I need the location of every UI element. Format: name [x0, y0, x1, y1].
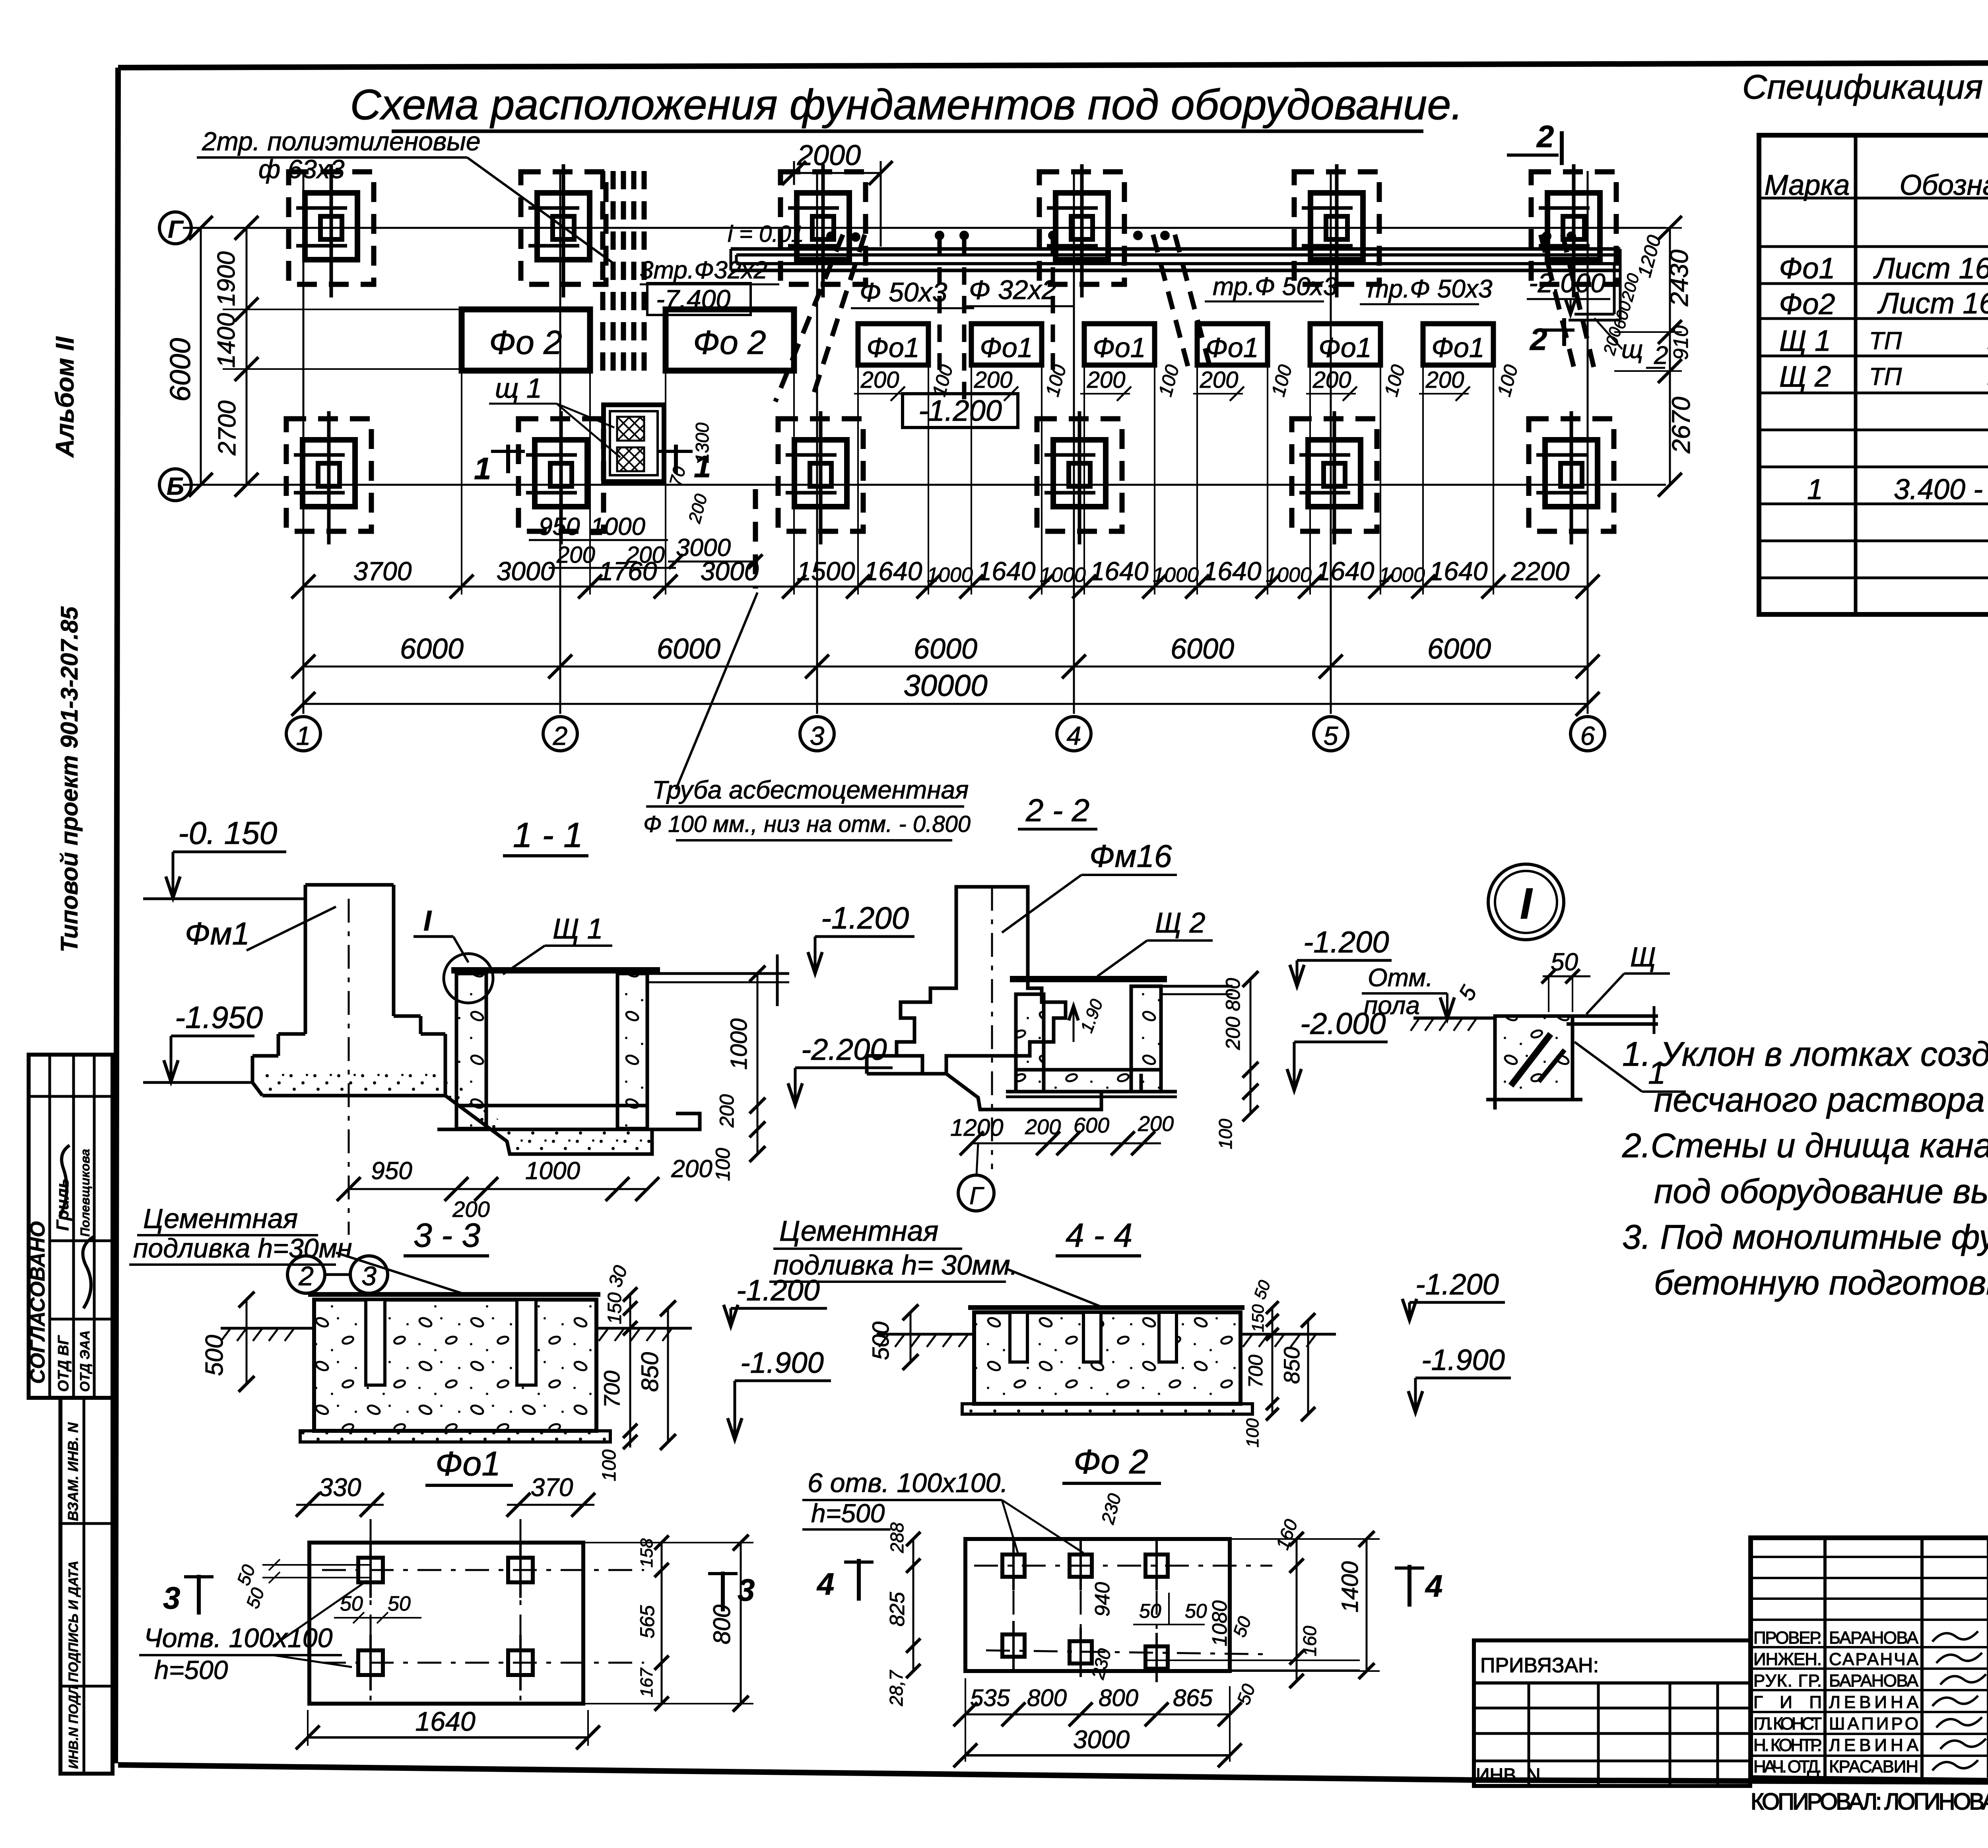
svg-text:3000: 3000 — [701, 556, 759, 586]
column Фм1 — [305, 883, 394, 887]
svg-text:бетонную подготовку из бетона: бетонную подготовку из бетона М 50. — [1654, 1264, 1988, 1302]
svg-text:ОТД ВГ: ОТД ВГ — [55, 1335, 72, 1392]
elevation -1.200 box — [903, 394, 1018, 428]
anchors plan Фо1 — [358, 1558, 383, 1582]
svg-text:6: 6 — [1580, 721, 1595, 750]
svg-text:865: 865 — [1173, 1685, 1213, 1711]
extra pipe dots — [827, 233, 835, 240]
inv strip table — [60, 1398, 113, 1774]
foundation square top row col 3 — [780, 172, 866, 284]
Фо1 box 5 — [1310, 324, 1380, 365]
svg-text:Фм1: Фм1 — [185, 916, 250, 951]
svg-text:Щ 1: Щ 1 — [553, 913, 603, 945]
svg-text:Щ: Щ — [1630, 941, 1656, 972]
svg-text:1000: 1000 — [1040, 564, 1086, 587]
svg-text:Фо1: Фо1 — [866, 332, 920, 363]
svg-text:подливка h= 30мм.: подливка h= 30мм. — [773, 1249, 1018, 1281]
dims top plan Фо1 — [296, 1504, 384, 1506]
svg-text:3700: 3700 — [353, 556, 412, 586]
column axis 3 — [816, 171, 818, 714]
svg-text:-2.000: -2.000 — [1529, 268, 1606, 298]
channel bottom slab2 — [437, 1128, 676, 1131]
svg-text:-2.200: -2.200 — [801, 1033, 887, 1067]
spec table — [1759, 135, 1988, 614]
svg-text:825: 825 — [886, 1591, 909, 1626]
svg-text:1. Уклон в лотках создать путе: 1. Уклон в лотках создать путем нанесени… — [1622, 1035, 1988, 1073]
Фо2 box 1 — [462, 309, 590, 371]
floor line left — [143, 898, 305, 900]
svg-text:Фм16: Фм16 — [1089, 838, 1172, 874]
svg-text:50: 50 — [340, 1592, 363, 1615]
svg-text:Фо1: Фо1 — [1779, 252, 1835, 285]
svg-text:1000: 1000 — [1266, 564, 1312, 587]
svg-text:200: 200 — [1425, 367, 1464, 393]
svg-text:Фо 2: Фо 2 — [693, 324, 766, 361]
svg-text:щ: щ — [1621, 335, 1643, 363]
svg-text:Схема расположения фундаментов: Схема расположения фундаментов под обору… — [350, 80, 1463, 128]
dim 500 left 3-3 — [246, 1300, 248, 1384]
bedding 2-2 — [946, 1074, 1141, 1110]
signature squiggles — [60, 1145, 70, 1217]
svg-text:600: 600 — [1074, 1113, 1109, 1137]
svg-text:1640: 1640 — [1316, 556, 1375, 586]
svg-text:РУК. ГР.: РУК. ГР. — [1753, 1671, 1822, 1691]
svg-text:200: 200 — [1138, 1112, 1174, 1136]
concrete texture under footing — [262, 1074, 652, 1154]
foundation square top row col 1 — [289, 172, 374, 284]
signature table rows — [1751, 1556, 1988, 1558]
svg-text:150: 150 — [1248, 1304, 1267, 1332]
svg-text:1760: 1760 — [599, 556, 657, 586]
svg-text:2тр. полиэтиленовые: 2тр. полиэтиленовые — [202, 126, 481, 156]
svg-text:Альбом II: Альбом II — [50, 336, 79, 458]
svg-text:Фо1: Фо1 — [1206, 332, 1259, 363]
svg-text:Щ 2: Щ 2 — [1155, 907, 1206, 939]
svg-text:200: 200 — [1312, 367, 1351, 393]
right dims 3-3 — [629, 1294, 631, 1448]
svg-text:100: 100 — [1243, 1418, 1262, 1448]
axis circle Г 2-2 — [958, 1175, 994, 1211]
svg-text:ВЗАМ. ИНВ. N: ВЗАМ. ИНВ. N — [65, 1422, 81, 1521]
svg-text:h=500: h=500 — [154, 1655, 228, 1685]
svg-text:800: 800 — [1099, 1685, 1138, 1711]
channel 2-2 — [1016, 994, 1044, 1092]
svg-text:200: 200 — [860, 367, 899, 393]
svg-text:200 800: 200 800 — [1222, 978, 1244, 1050]
extension lines to dim row A — [461, 372, 462, 595]
dim chain row B 6000 — [303, 666, 1588, 668]
svg-text:2200: 2200 — [1511, 556, 1570, 586]
detail circle mark I — [444, 954, 493, 1003]
bedding sloping to channel — [262, 1096, 700, 1154]
anchor slots 4-4 — [1010, 1312, 1027, 1362]
svg-text:288: 288 — [887, 1522, 907, 1553]
svg-text:1640: 1640 — [864, 556, 922, 586]
svg-text:565: 565 — [636, 1605, 658, 1638]
svg-text:Лист 16: Лист 16 — [1873, 252, 1988, 285]
svg-text:ТП: ТП — [1869, 327, 1902, 355]
bottom dims section 1-1 — [349, 1188, 647, 1190]
svg-text:ТП: ТП — [1869, 363, 1902, 391]
foundation square bottom row col 4 — [1037, 419, 1122, 531]
svg-text:6 отв. 100х100.: 6 отв. 100х100. — [808, 1468, 1008, 1498]
foundation square bottom row col 1 — [286, 419, 371, 531]
floor right 2-2 — [1161, 985, 1233, 988]
svg-text:-2.000: -2.000 — [1300, 1007, 1386, 1041]
svg-text:167: 167 — [637, 1667, 656, 1697]
svg-text:4: 4 — [1425, 1568, 1442, 1603]
right dims plan Фо1 — [661, 1543, 663, 1704]
floor lines right of channel — [647, 972, 789, 975]
svg-text:h=500: h=500 — [811, 1498, 885, 1528]
svg-text:3 - 3: 3 - 3 — [414, 1216, 480, 1254]
svg-text:Ф 32х2: Ф 32х2 — [969, 275, 1056, 305]
left dim 6000 vertical — [200, 228, 202, 485]
svg-text:ИНЖЕН.: ИНЖЕН. — [1753, 1650, 1822, 1669]
svg-text:200: 200 — [974, 367, 1013, 393]
svg-text:800: 800 — [709, 1605, 735, 1644]
column axis 5 — [1330, 171, 1332, 714]
svg-text:Чотв. 100х100: Чотв. 100х100 — [144, 1623, 333, 1653]
svg-text:Спецификация к схеме расположе: Спецификация к схеме расположения фундам… — [1742, 68, 1988, 106]
svg-text:-1.950: -1.950 — [175, 1000, 263, 1035]
svg-text:Марка: Марка — [1765, 169, 1850, 201]
svg-text:6000: 6000 — [914, 633, 977, 665]
svg-text:Отм.: Отм. — [1368, 963, 1433, 992]
svg-text:1640: 1640 — [1090, 556, 1149, 586]
svg-text:3.400 - 6/76: 3.400 - 6/76 — [1894, 474, 1988, 505]
svg-text:500: 500 — [201, 1335, 228, 1376]
svg-text:Щ 2: Щ 2 — [1779, 360, 1831, 393]
foundation square bottom row col 3 — [778, 419, 863, 531]
svg-text:5: 5 — [1324, 721, 1338, 750]
svg-text:950: 950 — [371, 1157, 412, 1185]
svg-text:1000: 1000 — [927, 564, 973, 587]
svg-text:2670: 2670 — [1667, 396, 1695, 454]
svg-text:535: 535 — [970, 1685, 1010, 1711]
svg-text:Труба асбестоцементная: Труба асбестоцементная — [652, 775, 969, 804]
footing steps — [278, 1032, 305, 1036]
dim row C 30000 — [303, 703, 1588, 705]
Фо1 box 3 — [1084, 324, 1155, 365]
ground hatch 4-4 — [877, 1333, 974, 1336]
svg-text:ф 63х3: ф 63х3 — [258, 154, 345, 184]
Щ plate detail I — [1567, 1014, 1658, 1018]
Фо1 box 2 — [971, 324, 1042, 365]
svg-text:-1.900: -1.900 — [1421, 1343, 1505, 1376]
svg-text:-1.200: -1.200 — [821, 900, 909, 935]
svg-text:-1.900: -1.900 — [740, 1346, 824, 1379]
foundation square top row col 2 — [521, 172, 606, 284]
svg-text:4 - 4: 4 - 4 — [1066, 1216, 1132, 1254]
svg-text:1640: 1640 — [1203, 556, 1262, 586]
svg-text:щ 1: щ 1 — [495, 373, 542, 404]
dashed diagonal pipes right — [1541, 235, 1574, 370]
svg-text:Типовой проект 901-3-207.85: Типовой проект 901-3-207.85 — [56, 606, 83, 952]
svg-text:50: 50 — [1139, 1600, 1161, 1622]
svg-text:1300: 1300 — [692, 422, 712, 463]
svg-text:1500: 1500 — [797, 556, 855, 586]
svg-text:БАРАНОВА: БАРАНОВА — [1829, 1671, 1919, 1691]
svg-text:330: 330 — [319, 1473, 361, 1502]
svg-text:песчаного раствора состава 1:2: песчаного раствора состава 1:2. — [1654, 1081, 1988, 1119]
svg-text:30000: 30000 — [903, 669, 987, 703]
svg-text:ОТД ЭАА: ОТД ЭАА — [78, 1330, 93, 1392]
Фо2 box 2 — [666, 309, 794, 371]
svg-text:700: 700 — [1244, 1354, 1267, 1388]
svg-text:-1.200: -1.200 — [918, 394, 1002, 427]
svg-text:-0. 150: -0. 150 — [178, 815, 277, 851]
bottom dims Фо2 plan — [965, 1714, 1230, 1716]
column axis 6 — [1587, 171, 1589, 714]
svg-text:700: 700 — [599, 1371, 624, 1408]
svg-text:НАЧ. ОТД.: НАЧ. ОТД. — [1753, 1757, 1822, 1776]
channel walls section 1-1 — [456, 974, 486, 1129]
inner dim 1.90 arrow — [1073, 1006, 1075, 1042]
foundation square top row col 5 — [1294, 172, 1379, 284]
svg-text:1000: 1000 — [1153, 564, 1199, 587]
bottom plate 4-4 — [962, 1404, 1252, 1414]
svg-text:БАРАНОВА: БАРАНОВА — [1829, 1628, 1919, 1648]
svg-text:ПОДПИСЬ И ДАТА: ПОДПИСЬ И ДАТА — [66, 1560, 81, 1682]
column axis 1 — [303, 171, 305, 714]
svg-text:200: 200 — [671, 1155, 712, 1183]
dashed diagonal pipes near col 3 — [775, 235, 843, 402]
svg-text:1900: 1900 — [213, 251, 240, 306]
svg-text:2: 2 — [553, 721, 568, 750]
dashed diagonal pipes near col 5 — [1153, 235, 1189, 370]
svg-text:3000: 3000 — [497, 556, 555, 586]
svg-text:Полевщикова: Полевщикова — [78, 1149, 92, 1237]
svg-text:Щ 1: Щ 1 — [1779, 324, 1831, 357]
svg-text:Цементная: Цементная — [143, 1203, 298, 1234]
svg-text:910: 910 — [1670, 325, 1693, 360]
centerline 2-2 — [991, 887, 993, 1169]
footing slab — [251, 1056, 254, 1082]
svg-text:Фо 2: Фо 2 — [1074, 1443, 1148, 1481]
svg-text:ПРИВЯЗАН:: ПРИВЯЗАН: — [1480, 1654, 1599, 1677]
concrete block detail I — [1495, 1016, 1573, 1100]
left dim chain 1900 1400 2700 — [246, 228, 248, 485]
svg-text:1400: 1400 — [1337, 1561, 1363, 1613]
svg-text:Фо1: Фо1 — [435, 1445, 501, 1483]
right rot dims Фо2 plan — [1296, 1539, 1298, 1681]
ground hatch left right 3-3 — [221, 1327, 314, 1330]
svg-text:1000: 1000 — [590, 513, 645, 540]
svg-text:подливка h=30мн: подливка h=30мн — [133, 1233, 352, 1263]
svg-text:тр.Ф 50х3: тр.Ф 50х3 — [1213, 272, 1338, 301]
svg-text:ИНВ.N ПОДЛ: ИНВ.N ПОДЛ — [66, 1685, 81, 1769]
svg-text:6000: 6000 — [657, 633, 720, 665]
svg-text:I: I — [1520, 879, 1533, 928]
svg-text:-1.200: -1.200 — [1303, 925, 1389, 959]
svg-text:1080: 1080 — [1208, 1600, 1231, 1646]
svg-text:200: 200 — [1087, 367, 1126, 393]
svg-text:Обозначение: Обозначение — [1899, 169, 1988, 201]
svg-text:Фо2: Фо2 — [1779, 288, 1835, 321]
svg-text:Н. КОНТР.: Н. КОНТР. — [1753, 1735, 1822, 1755]
svg-text:100: 100 — [712, 1148, 734, 1181]
svg-text:4: 4 — [1067, 721, 1081, 750]
right dims 4-4 — [1272, 1308, 1274, 1414]
svg-text:1000: 1000 — [525, 1157, 580, 1185]
svg-text:Ф 100 мм., низ на отм. - 0.800: Ф 100 мм., низ на отм. - 0.800 — [643, 811, 971, 837]
svg-text:160: 160 — [1299, 1626, 1320, 1656]
svg-text:1640: 1640 — [977, 556, 1036, 586]
svg-text:3: 3 — [163, 1580, 180, 1615]
anchors plan Фо2 — [1002, 1555, 1025, 1577]
svg-text:2 - 2: 2 - 2 — [1025, 793, 1089, 828]
channel end turn — [1619, 249, 1622, 320]
svg-text:под оборудование выполнить из: под оборудование выполнить из бетона М 1… — [1654, 1172, 1988, 1211]
Щ2 plate — [1010, 976, 1167, 982]
foundation square bottom row col 5 — [1292, 419, 1377, 531]
stepped column 2-2 — [897, 887, 1066, 1074]
anchor slots 3-3 — [366, 1300, 385, 1385]
foundation square top row col 4 — [1039, 172, 1124, 284]
svg-text:САРАНЧА: САРАНЧА — [1829, 1650, 1919, 1669]
foundation square bottom row col 2 — [518, 419, 604, 531]
svg-text:850: 850 — [637, 1352, 663, 1392]
svg-text:ПРОВЕР.: ПРОВЕР. — [1753, 1628, 1822, 1648]
svg-text:i = 0.01: i = 0.01 — [728, 221, 804, 247]
signature table columns — [1823, 1538, 1827, 1778]
svg-text:1: 1 — [1807, 474, 1823, 505]
axis circles 2 3 section — [287, 1256, 325, 1293]
svg-text:4: 4 — [816, 1566, 834, 1601]
svg-text:Гриль: Гриль — [53, 1178, 72, 1231]
plan Фо2 — [965, 1539, 1230, 1671]
privyazan table — [1474, 1640, 1750, 1786]
svg-text:1: 1 — [474, 451, 491, 486]
truba dashed line — [753, 489, 758, 589]
plan Фо1 — [309, 1543, 583, 1704]
svg-text:Фо1: Фо1 — [1093, 332, 1146, 363]
foundation square bottom row col 6 — [1529, 419, 1614, 531]
svg-text:850: 850 — [1279, 1347, 1304, 1384]
axis Б — [183, 484, 1666, 486]
svg-text:2: 2 — [1529, 322, 1547, 357]
svg-text:Фо1: Фо1 — [1431, 332, 1485, 363]
Фо1 box 6 — [1423, 324, 1493, 365]
svg-text:1: 1 — [296, 721, 311, 750]
svg-text:1640: 1640 — [415, 1706, 475, 1737]
svg-text:1 - 1: 1 - 1 — [513, 815, 583, 855]
axis Г — [183, 227, 1666, 229]
svg-text:500: 500 — [868, 1321, 894, 1360]
title block main frame — [1751, 1538, 1988, 1784]
svg-text:800: 800 — [1027, 1685, 1067, 1711]
svg-text:ИНВ. N: ИНВ. N — [1476, 1765, 1541, 1786]
svg-text:6000: 6000 — [1171, 633, 1234, 665]
svg-text:1640: 1640 — [1429, 556, 1488, 586]
block 3-3 — [314, 1300, 596, 1431]
svg-text:2000: 2000 — [797, 140, 861, 171]
svg-text:СОГЛАСОВАНО: СОГЛАСОВАНО — [26, 1221, 49, 1384]
svg-text:370: 370 — [531, 1473, 573, 1502]
svg-text:1000: 1000 — [726, 1018, 752, 1070]
svg-text:200: 200 — [1025, 1115, 1061, 1139]
svg-text:3тр.Ф32х2: 3тр.Ф32х2 — [640, 257, 767, 284]
svg-text:Ф 50х3: Ф 50х3 — [860, 277, 947, 307]
ground line — [1413, 1016, 1495, 1020]
svg-text:200: 200 — [1200, 367, 1239, 393]
Фо1 box 4 — [1197, 324, 1268, 365]
svg-text:Фо1: Фо1 — [980, 332, 1033, 363]
svg-text:2.Стены и днища каналов и прия: 2.Стены и днища каналов и приямков, фунд… — [1622, 1127, 1988, 1165]
svg-text:тр.Ф 50х3: тр.Ф 50х3 — [1368, 274, 1493, 303]
bottom dim 1640 — [308, 1736, 588, 1739]
Щ1 plate on channel — [451, 967, 660, 974]
svg-text:6000: 6000 — [400, 633, 464, 665]
channel lotok — [731, 247, 1620, 251]
soglasovano table — [29, 1055, 113, 1398]
right dim chain — [1669, 228, 1671, 485]
svg-text:2: 2 — [1654, 341, 1668, 369]
vertical dims 2-2 — [1250, 979, 1252, 1113]
vertical dashed pipes centre — [938, 239, 942, 370]
svg-text:150: 150 — [604, 1292, 625, 1324]
svg-text:Цементная: Цементная — [779, 1215, 938, 1247]
svg-text:КРАСАВИН: КРАСАВИН — [1829, 1757, 1918, 1776]
axis circle Г — [159, 212, 191, 244]
right dim chain 1000/200/100 — [757, 974, 759, 1155]
svg-text:50: 50 — [388, 1592, 411, 1615]
vertical dashed pipe col4-5 — [1051, 239, 1055, 370]
svg-text:28,7: 28,7 — [886, 1670, 907, 1706]
svg-text:ШАПИРО: ШАПИРО — [1829, 1714, 1918, 1733]
svg-text:200: 200 — [716, 1094, 738, 1128]
svg-text:50: 50 — [1185, 1600, 1207, 1622]
svg-text:100: 100 — [599, 1450, 620, 1481]
dim 500 4-4 — [910, 1312, 912, 1362]
svg-text:1200: 1200 — [950, 1114, 1003, 1141]
svg-text:100: 100 — [1215, 1119, 1236, 1149]
svg-text:6000: 6000 — [165, 338, 196, 402]
svg-text:Лист 16: Лист 16 — [1877, 287, 1988, 320]
svg-text:Г: Г — [168, 216, 184, 243]
svg-text:ГЛ. КОНСТ: ГЛ. КОНСТ — [1753, 1714, 1822, 1733]
svg-text:940: 940 — [1091, 1582, 1114, 1617]
svg-text:Б: Б — [167, 473, 184, 500]
svg-text:3000: 3000 — [1073, 1725, 1130, 1754]
detail I circle mark — [1488, 864, 1564, 940]
column axis 2 — [559, 171, 561, 714]
block 4-4 — [974, 1312, 1241, 1404]
Щ1 plan box — [604, 405, 664, 482]
svg-text:Фо1: Фо1 — [1318, 332, 1372, 363]
svg-text:Г: Г — [969, 1182, 984, 1210]
Фо1 box 1 — [858, 324, 928, 365]
svg-text:6000: 6000 — [1427, 633, 1491, 665]
svg-text:Фо 2: Фо 2 — [489, 324, 562, 361]
foundation square top row col 6 — [1531, 172, 1616, 284]
base slab 2-2 — [867, 1054, 897, 1058]
svg-text:-1.200: -1.200 — [1415, 1268, 1499, 1301]
rebar diagonal — [1511, 1034, 1551, 1086]
svg-text:1400: 1400 — [213, 313, 240, 368]
svg-text:3. Под монолитные фундаменты и: 3. Под монолитные фундаменты и каналы вы… — [1622, 1218, 1988, 1256]
dim chain row A — [303, 586, 1588, 588]
left rot dims Фо2 plan — [912, 1539, 914, 1671]
svg-text:2: 2 — [1536, 119, 1554, 154]
svg-text:2430: 2430 — [1665, 249, 1693, 307]
svg-text:I: I — [423, 905, 432, 937]
svg-text:1000: 1000 — [1379, 564, 1425, 587]
bottom plate 3-3 — [300, 1431, 610, 1442]
svg-text:3: 3 — [810, 721, 825, 750]
axis circle Б — [159, 469, 191, 501]
